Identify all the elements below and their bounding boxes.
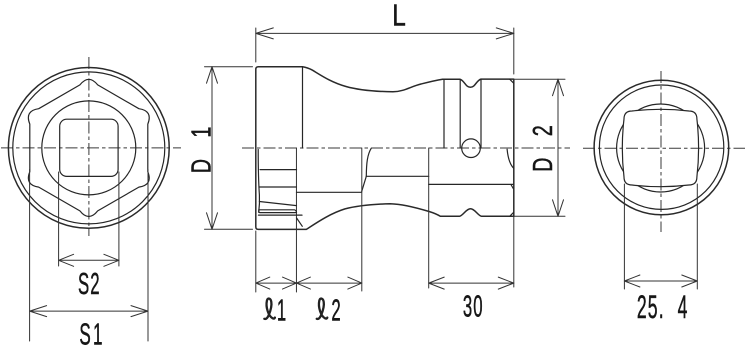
S2 dimension line with arrows bbox=[59, 254, 119, 266]
square drive hole depth vertical bbox=[428, 148, 430, 288]
square hole S2 wall line bbox=[297, 191, 362, 193]
D1 extension line top bbox=[205, 66, 253, 68]
D2 extension line top bbox=[514, 78, 565, 80]
25.4 dimension line with arrows bbox=[624, 275, 697, 287]
S1 dimension line with arrows bbox=[30, 306, 148, 317]
neck bore fillet bbox=[366, 148, 371, 176]
square hole entry chamfer bbox=[511, 185, 514, 189]
left view square drive hole bbox=[60, 119, 118, 176]
L dimension line with arrows bbox=[256, 28, 514, 39]
groove left edge bbox=[459, 80, 461, 149]
l1 label script ell bbox=[264, 299, 275, 319]
front chamfer cone line bbox=[258, 150, 259, 213]
svg-text:30: 30 bbox=[463, 290, 484, 323]
right view horizontal centerline bbox=[583, 147, 745, 149]
S2 extension line right bbox=[118, 172, 120, 266]
svg-text:L: L bbox=[392, 0, 406, 32]
D2 extension line bottom bbox=[514, 215, 565, 217]
head step vertical edge bbox=[302, 67, 304, 148]
S1 extension line left bbox=[29, 170, 31, 342]
svg-text:D 2: D 2 bbox=[528, 117, 559, 172]
left view bore circle bbox=[42, 101, 136, 195]
30 dimension line with arrows bbox=[429, 277, 514, 289]
flange face vertical edge bbox=[443, 79, 445, 148]
left view horizontal centerline bbox=[1, 147, 181, 149]
right view outer circle bbox=[594, 80, 729, 215]
hex bore flat lens lower line bbox=[259, 210, 297, 213]
right view chamfer ring circle bbox=[599, 85, 723, 209]
D1 dimension line with arrows bbox=[207, 67, 218, 230]
middle view horizontal centerline bbox=[242, 147, 570, 149]
L extension line left bbox=[255, 28, 257, 62]
S2 extension line left bbox=[58, 172, 60, 266]
left view chamfer ring circle bbox=[13, 72, 165, 224]
chamfer-to-hex slant line bbox=[259, 202, 296, 206]
svg-text:S1: S1 bbox=[79, 317, 104, 347]
l2 label script ell bbox=[317, 299, 328, 319]
pin hole circle bbox=[462, 139, 481, 158]
hex bore depth vertical bbox=[295, 148, 297, 292]
body outline bbox=[256, 67, 514, 230]
hex bore line B bbox=[259, 186, 296, 188]
D2 dimension line with arrows bbox=[553, 79, 564, 216]
groove right edge bbox=[480, 80, 482, 149]
square hole entry radius arc bbox=[507, 149, 514, 168]
left view outer circle bbox=[8, 67, 169, 228]
left view hex socket profile bbox=[28, 79, 149, 216]
svg-text:S2: S2 bbox=[78, 268, 101, 301]
hex vertex line bbox=[259, 214, 303, 216]
left view vertical centerline bbox=[88, 57, 90, 236]
hex bore flat lens upper line bbox=[259, 210, 297, 213]
neck internal vertical edge bbox=[361, 148, 363, 291]
l1 extension line left bbox=[255, 231, 257, 292]
30 extension continuation right bbox=[513, 216, 515, 287]
svg-text:1: 1 bbox=[277, 294, 286, 327]
D1 extension line bottom bbox=[205, 228, 253, 230]
right view vertical centerline bbox=[660, 71, 662, 232]
square drive hole wall line bbox=[429, 183, 514, 185]
svg-text:2: 2 bbox=[331, 294, 340, 327]
hex bore line A bbox=[260, 169, 296, 171]
l2 dimension line with arrows bbox=[296, 277, 361, 289]
neck bore wall line bbox=[366, 175, 428, 177]
L extension line right bbox=[513, 28, 515, 74]
svg-text:25.: 25. bbox=[637, 291, 665, 326]
svg-text:D 1: D 1 bbox=[186, 119, 217, 174]
right view square drive hole bbox=[622, 109, 698, 186]
25.4 extension line right bbox=[696, 184, 698, 289]
25.4 extension line left bbox=[623, 184, 625, 289]
bottom-right corner chamfer bbox=[510, 212, 514, 216]
S2 hole end diagonal bbox=[362, 176, 367, 191]
top-right corner chamfer bbox=[510, 79, 514, 83]
svg-text:4: 4 bbox=[678, 291, 688, 326]
l1 dimension line with arrows bbox=[256, 277, 297, 289]
hex bore bottom chamfer diagonal bbox=[297, 218, 303, 226]
right view bore circle bbox=[617, 104, 705, 192]
S1 extension line right bbox=[147, 170, 149, 342]
